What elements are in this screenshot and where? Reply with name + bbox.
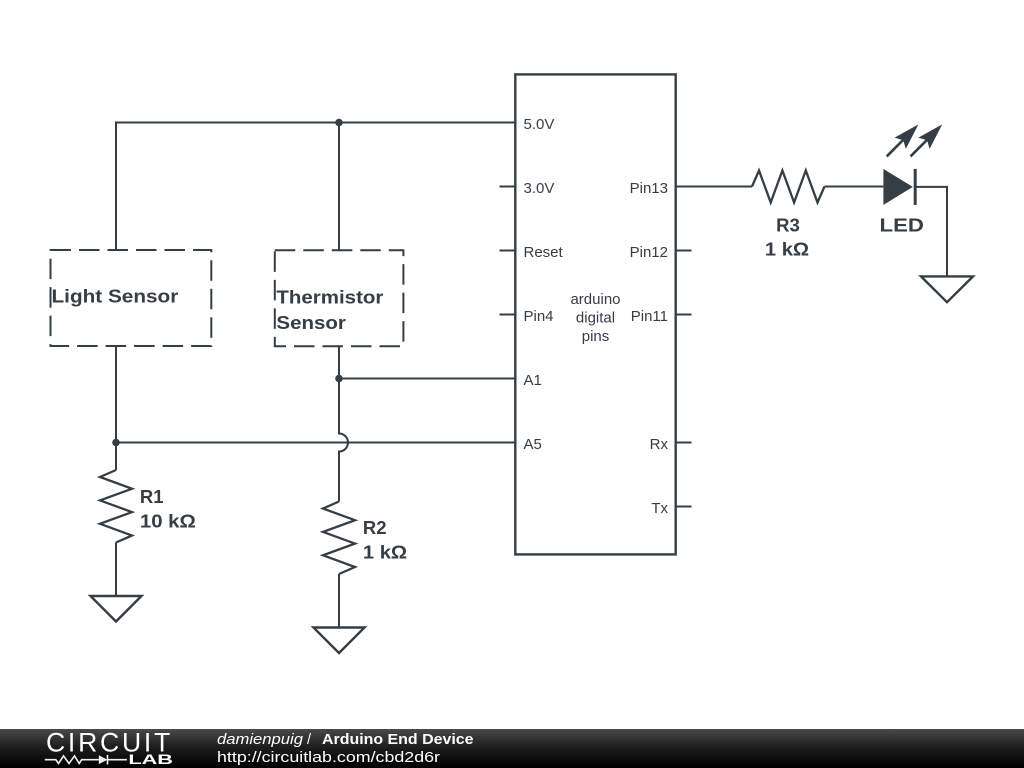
- svg-text:A5: A5: [524, 436, 542, 453]
- svg-text:Light Sensor: Light Sensor: [52, 286, 179, 307]
- svg-text:Thermistor: Thermistor: [276, 286, 383, 307]
- arduino box U1: [515, 74, 675, 554]
- wire A1 horizontal: [339, 378, 515, 380]
- logo resistor diode: [45, 755, 127, 765]
- pin stub Pin4: [500, 314, 516, 316]
- svg-text:Pin12: Pin12: [630, 244, 668, 261]
- wire R1 to ground: [115, 543, 117, 597]
- ground GND1: [91, 596, 142, 622]
- wire A5 horizontal: [116, 442, 515, 444]
- pin stub Pin12: [676, 250, 692, 252]
- svg-text:5.0V: 5.0V: [524, 116, 555, 133]
- svg-text:R2: R2: [363, 517, 387, 538]
- svg-text:R1: R1: [140, 486, 164, 507]
- wire R3 to LED: [825, 186, 884, 188]
- svg-text:Reset: Reset: [524, 244, 564, 261]
- LED arrow 2: [911, 124, 943, 156]
- svg-text:Pin13: Pin13: [630, 180, 668, 197]
- resistor R1: [100, 470, 132, 543]
- svg-text:R3: R3: [776, 215, 800, 236]
- LED cathode bar: [914, 169, 917, 205]
- thermistor box SENS2: [275, 250, 404, 346]
- pin stub Pin11: [676, 314, 692, 316]
- node A5 junction: [112, 439, 120, 447]
- wire LED to ground: [915, 187, 947, 277]
- svg-text:digital: digital: [576, 310, 615, 327]
- footer bar: [0, 729, 1024, 768]
- wire Pin13 to R3: [676, 186, 752, 188]
- resistor R3: [752, 171, 825, 203]
- ground GND2: [314, 628, 365, 654]
- svg-text:Sensor: Sensor: [276, 312, 346, 333]
- wire top 5V rail: [116, 123, 515, 251]
- svg-text:arduino: arduino: [570, 291, 620, 308]
- LED D1 triangle: [883, 169, 912, 205]
- light sensor box SENS1: [51, 250, 212, 346]
- svg-text:LED: LED: [880, 215, 924, 236]
- LED arrow 1: [887, 124, 919, 156]
- logo diode triangle: [99, 755, 108, 764]
- svg-text:Arduino End Device: Arduino End Device: [322, 732, 474, 748]
- resistor R2: [323, 502, 355, 575]
- svg-text:pins: pins: [582, 328, 610, 345]
- svg-text:LAB: LAB: [128, 751, 173, 767]
- node A1 junction: [335, 375, 343, 383]
- svg-text:Tx: Tx: [651, 500, 668, 517]
- svg-text:Pin4: Pin4: [524, 308, 554, 325]
- pin stub Tx: [676, 506, 692, 508]
- node rail/thermistor junction: [335, 119, 343, 127]
- svg-text:10 kΩ: 10 kΩ: [140, 511, 196, 532]
- svg-text:A1: A1: [524, 372, 542, 389]
- wire thermistor bottom with hop over A5: [339, 346, 348, 502]
- svg-text:3.0V: 3.0V: [524, 180, 555, 197]
- pin stub Rx: [676, 442, 692, 444]
- svg-text:damienpuig: damienpuig: [217, 732, 303, 748]
- pin stub 3.0V: [500, 186, 516, 188]
- ground GND3: [921, 276, 973, 302]
- svg-text:Rx: Rx: [650, 436, 669, 453]
- wire thermistor top drop: [338, 123, 340, 251]
- wire light sensor bottom to R1: [115, 346, 117, 470]
- svg-text:1 kΩ: 1 kΩ: [765, 239, 809, 260]
- pin stub Reset: [500, 250, 516, 252]
- svg-text:Pin11: Pin11: [631, 308, 668, 325]
- wire R2 to ground: [338, 574, 340, 628]
- svg-text:1 kΩ: 1 kΩ: [363, 542, 407, 563]
- svg-text:http://circuitlab.com/cbd2d6r: http://circuitlab.com/cbd2d6r: [217, 750, 440, 766]
